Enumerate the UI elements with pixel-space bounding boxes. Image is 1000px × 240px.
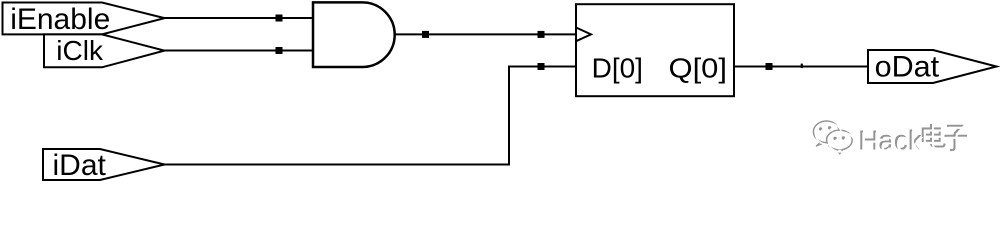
- watermark white emboss layer: [815, 123, 969, 157]
- node tick on Q output wire: [801, 64, 803, 69]
- node junction on iEnable wire: [276, 15, 283, 22]
- wire iClk to AND gate: [165, 50, 314, 52]
- svg-text:iClk: iClk: [56, 35, 104, 66]
- flip-flop clock triangle: [576, 28, 591, 42]
- svg-text:Q[0]: Q[0]: [669, 52, 728, 83]
- output port oDat: [868, 50, 997, 83]
- svg-text:iEnable: iEnable: [10, 3, 110, 36]
- wire Q output to oDat: [734, 66, 868, 68]
- input port iEnable: [3, 3, 165, 35]
- svg-text:D[0]: D[0]: [592, 52, 643, 83]
- watermark gray layer: [813, 121, 967, 155]
- AND gate: [313, 2, 395, 67]
- node junction on D wire near flip-flop: [538, 63, 545, 70]
- svg-text:iDat: iDat: [53, 149, 107, 182]
- flip-flop U1: [576, 4, 734, 96]
- node junction on iClk wire: [276, 47, 283, 54]
- svg-text:oDat: oDat: [875, 51, 940, 84]
- node junction on AND output wire: [422, 31, 429, 38]
- wire AND output to flip-flop clock: [394, 33, 576, 35]
- input port iDat: [43, 149, 165, 180]
- node junction on Q output wire: [766, 63, 773, 70]
- wire iDat to flip-flop D input: [165, 67, 577, 165]
- node junction on clock wire near flip-flop: [538, 31, 545, 38]
- wire iEnable to AND gate: [165, 17, 314, 19]
- input port iClk: [44, 34, 165, 67]
